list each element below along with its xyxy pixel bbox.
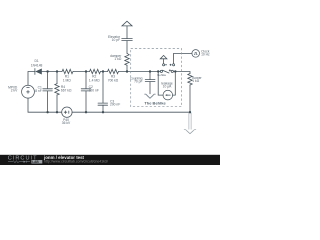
resistor R3: [108, 69, 119, 73]
switch Behlke: [160, 70, 173, 73]
wire Bower to bottom rail: [189, 85, 191, 113]
svg-text:700 kΩ: 700 kΩ: [108, 79, 119, 83]
svg-text:2 kV: 2 kV: [11, 88, 18, 92]
antenna ANT2: [160, 55, 167, 58]
svg-text:667 kΩ: 667 kΩ: [61, 89, 72, 93]
capacitor C3: [98, 103, 108, 105]
svg-text:1 MΩ: 1 MΩ: [63, 79, 71, 83]
capacitor C2: [81, 89, 91, 91]
capacitor C1: [43, 89, 53, 91]
node dot bottom right: [189, 111, 191, 113]
node dot top C3: [102, 70, 104, 72]
node dot bottom R4: [56, 111, 58, 113]
node dot top C2: [85, 70, 87, 72]
wire R3 to switch: [119, 71, 161, 73]
resistor Bower: [188, 74, 192, 86]
resistor damper: [125, 53, 129, 65]
switch control pins: [163, 64, 175, 66]
wire switch to leakage loop left: [157, 72, 159, 96]
labels: [8, 35, 210, 125]
node dot top damper: [126, 70, 128, 72]
wire elevator cap to antenna: [126, 26, 128, 39]
node dot leakage left: [157, 70, 159, 72]
svg-text:10 pF: 10 pF: [112, 38, 120, 42]
svg-text:70 pF: 70 pF: [134, 79, 142, 83]
coupling branch wire: [149, 72, 151, 80]
node dot top C1: [46, 70, 48, 72]
capacitor coupling: [145, 80, 155, 82]
wire C2 branch top: [85, 72, 87, 89]
svg-text:http://www.circuitlab.com/circ: http://www.circuitlab.com/circuit/cne41k…: [44, 160, 108, 164]
wire source bottom to bottom rail: [28, 98, 62, 112]
ground (main) hollow lead and chevron: [184, 113, 196, 134]
resistor R2: [90, 69, 101, 73]
wire damper branch bottom: [126, 65, 128, 71]
wire leakage loop right: [174, 72, 176, 96]
svg-text:10 Hz: 10 Hz: [201, 53, 210, 57]
antenna ANT1: [122, 21, 132, 26]
wire R4 branch top: [56, 72, 58, 84]
dashed box The Behlke: [131, 49, 182, 107]
footer banner: [0, 155, 220, 165]
svg-text:The Behlke: The Behlke: [144, 100, 166, 105]
svg-text:LAB: LAB: [32, 160, 39, 164]
current source leakage: [163, 90, 173, 100]
capacitor Elevator: [122, 39, 133, 41]
ground (coupling) hollow chevron: [144, 94, 155, 98]
wire control plus to clock: [174, 53, 192, 63]
svg-text:10 µA: 10 µA: [163, 84, 172, 88]
wire loop bottom left: [158, 94, 163, 96]
resistor R1: [62, 69, 73, 73]
wire coupling to ground: [149, 82, 151, 94]
svg-text:Behlke: Behlke: [157, 73, 166, 77]
node dot bottom C2: [85, 111, 87, 113]
node dot bottom C1: [46, 111, 48, 113]
svg-text:1 kΩ: 1 kΩ: [114, 57, 121, 61]
diode D1: [35, 69, 48, 75]
wire bottom rail: [72, 111, 190, 113]
node dot leakage right: [174, 70, 176, 72]
svg-text:36 kV: 36 kV: [62, 121, 71, 125]
wire rail D1 to R1: [48, 71, 62, 73]
svg-text:200 nF: 200 nF: [110, 103, 120, 107]
junction dots: [46, 70, 191, 113]
wire loop bottom right: [173, 94, 176, 96]
voltage source P40 inline: [62, 107, 72, 117]
resistor R4: [55, 84, 59, 95]
wire C3 branch top: [102, 72, 104, 104]
node dot bottom C3: [102, 111, 104, 113]
node dot coupling: [149, 70, 151, 72]
wire R1 to R2: [73, 71, 90, 73]
wire control minus to antenna: [163, 59, 165, 64]
svg-text:1N4148: 1N4148: [31, 63, 43, 67]
wire C3 branch bottom: [102, 105, 104, 112]
wire R4 branch bottom: [56, 95, 58, 112]
voltage source MP0D: [22, 85, 35, 98]
svg-text:1.4 MΩ: 1.4 MΩ: [89, 79, 100, 83]
svg-text:8 nF: 8 nF: [35, 89, 42, 93]
wire C1 branch top: [47, 72, 49, 89]
svg-text:100 nF: 100 nF: [89, 89, 99, 93]
wire C2 branch bottom: [85, 91, 87, 112]
node dot top R4: [56, 70, 58, 72]
wire C1 branch bottom: [47, 91, 49, 112]
wire damper to elevator cap: [126, 41, 128, 54]
wire top rail left corner: [28, 72, 35, 86]
voltage source Clock: [192, 50, 200, 58]
svg-text:1 kΩ: 1 kΩ: [192, 79, 199, 83]
wire switch out to Bower: [173, 72, 190, 74]
wire R2 to R3: [101, 71, 108, 73]
